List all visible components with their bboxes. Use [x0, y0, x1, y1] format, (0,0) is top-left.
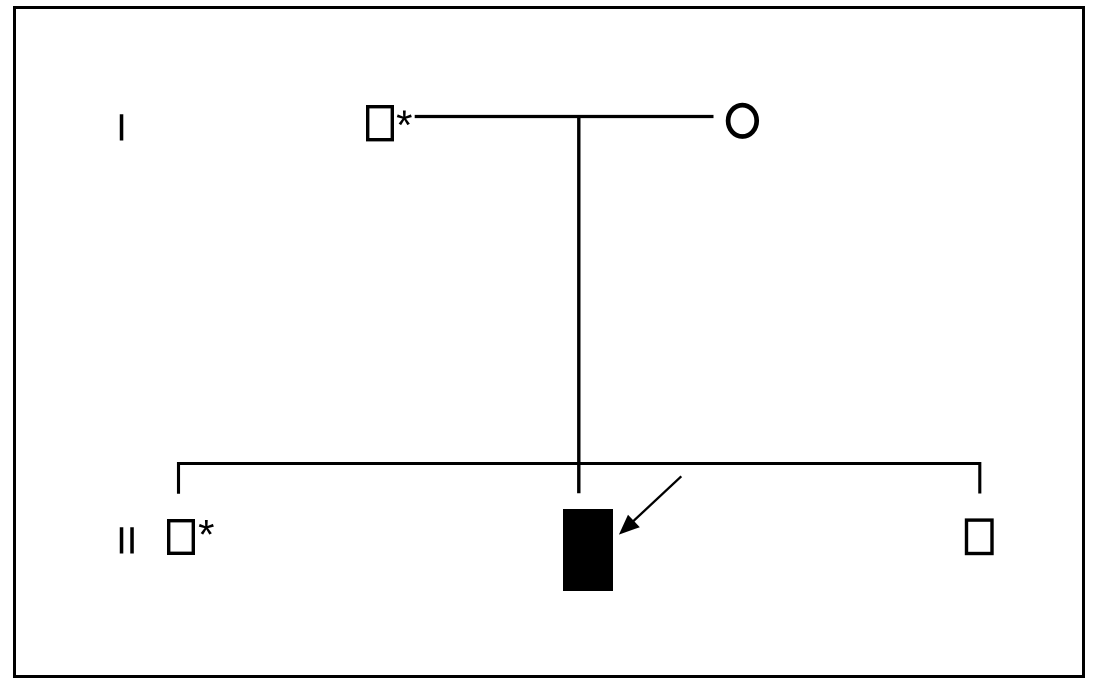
wire: sibship line with drops	[179, 464, 980, 494]
individual II-2 proband filled rectangle	[563, 509, 613, 591]
wire: line of descent	[577, 115, 580, 493]
wire: couple line	[415, 115, 714, 118]
individual I-1 male square	[368, 107, 393, 140]
svg-text:II: II	[116, 521, 137, 563]
svg-text:I: I	[116, 108, 127, 150]
proband arrow	[619, 476, 681, 534]
individual I-2 female circle	[728, 105, 757, 136]
individual II-3 male square	[967, 520, 993, 553]
svg-text:*: *	[396, 101, 412, 148]
svg-text:*: *	[198, 511, 214, 558]
individual II-1 male square	[169, 521, 194, 554]
